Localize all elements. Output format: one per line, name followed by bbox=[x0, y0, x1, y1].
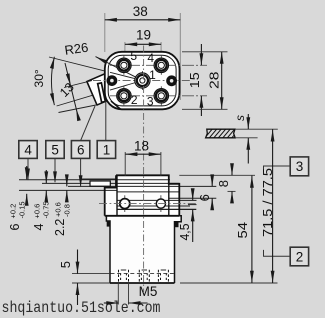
dimension 15 line bbox=[200, 44, 202, 65]
arrow 13 upper bbox=[66, 73, 71, 85]
svg-text:54: 54 bbox=[235, 222, 250, 239]
label 4 +0.6/-0.75 bbox=[32, 201, 51, 230]
svg-text:5: 5 bbox=[130, 49, 137, 63]
svg-text:4: 4 bbox=[32, 224, 46, 231]
leader box 6 up to tab bbox=[81, 106, 95, 141]
wire: extension line left of 38 dim bbox=[104, 13, 106, 52]
svg-text:-0.15: -0.15 bbox=[18, 201, 27, 218]
wire: extension flange top right bbox=[182, 51, 228, 53]
centerline main vertical bbox=[143, 46, 145, 293]
leader box 6 down bbox=[80, 158, 82, 186]
leader box 5 bbox=[54, 158, 56, 182]
svg-text:71.5 / 77.5: 71.5 / 77.5 bbox=[260, 168, 275, 237]
dimension 28 line bbox=[221, 52, 223, 110]
flange outline inner chamfer bbox=[108, 55, 176, 106]
arrow arc bottom bbox=[50, 93, 54, 105]
leader box 4 bbox=[27, 158, 29, 179]
dimension 6 right bbox=[211, 178, 213, 187]
dimension 5 bbox=[77, 250, 79, 274]
R26 leader bbox=[96, 57, 143, 81]
dimension 8 bbox=[231, 164, 233, 175]
centerline row top (15 ref) bbox=[110, 64, 207, 66]
chamfer block left bbox=[107, 221, 111, 227]
hatched plate body bbox=[203, 127, 241, 140]
mounting hole left bbox=[120, 195, 130, 212]
svg-text:15: 15 bbox=[187, 72, 202, 88]
arrow 28 top bbox=[220, 52, 224, 64]
node: 30-deg ray lower bbox=[57, 90, 110, 106]
svg-text:4: 4 bbox=[147, 51, 154, 65]
wire: inner line y191.9 bbox=[117, 191, 179, 193]
arrow 19 right bbox=[149, 42, 161, 46]
arrow s bottom bbox=[246, 138, 250, 150]
wire: stack line y186.4 (callout 6 target, 6-dim right ref) bbox=[68, 185, 216, 187]
label 2.2 +0.6/-0.8 bbox=[53, 202, 72, 236]
centerline horizontal mid bbox=[93, 80, 192, 82]
box 3 bbox=[290, 157, 308, 176]
wire: 18 ext right bbox=[160, 152, 162, 176]
svg-text:2.2: 2.2 bbox=[53, 219, 67, 236]
body outline top plate bbox=[105, 175, 180, 216]
tab (rotatable connector) bbox=[87, 72, 120, 105]
box 4 bbox=[19, 141, 37, 159]
wire: M5 ext right bbox=[128, 283, 130, 305]
M5 hole bottom mid bbox=[139, 270, 149, 283]
leader box 2 bbox=[264, 250, 291, 256]
centerline row bottom (15 ref) bbox=[110, 95, 207, 97]
svg-text:3: 3 bbox=[296, 159, 304, 174]
port 4 bbox=[154, 56, 168, 75]
slot in tab bbox=[98, 83, 106, 102]
side hole right bbox=[166, 75, 177, 86]
body white fill bbox=[105, 175, 182, 283]
svg-text:19: 19 bbox=[136, 28, 151, 43]
wire: M5 ext left bbox=[117, 283, 119, 305]
svg-text:4,5: 4,5 bbox=[177, 224, 192, 241]
wire: ref line y206 across body bbox=[117, 205, 190, 207]
box 1 bbox=[97, 141, 115, 159]
body inner verticals bbox=[116, 175, 118, 216]
wire: plate top line extended right (ref for 77.5) bbox=[235, 128, 278, 130]
node: 30-deg arc bbox=[51, 57, 54, 105]
svg-text:6: 6 bbox=[8, 224, 22, 231]
svg-text:28: 28 bbox=[206, 72, 221, 90]
flange bottom-left chamfer bbox=[111, 101, 121, 109]
svg-text:18: 18 bbox=[134, 139, 149, 154]
dimension 18 bbox=[125, 153, 161, 155]
wire: extension flange bottom right bbox=[182, 108, 228, 110]
wire: stack line y179 bbox=[80, 178, 117, 180]
svg-text:+0.6: +0.6 bbox=[33, 204, 42, 219]
wire: extension line right of 38 dim bbox=[179, 13, 181, 100]
svg-text:1: 1 bbox=[149, 68, 156, 82]
arrow 13 lower bbox=[76, 109, 81, 121]
leader box 1 up bbox=[105, 101, 107, 141]
wire: extension line left of 19 dim bbox=[124, 42, 126, 58]
svg-text:-0.75: -0.75 bbox=[42, 201, 51, 218]
svg-text:2: 2 bbox=[131, 93, 138, 107]
wire: stack line y183.4 (callout 5 target) bbox=[42, 182, 179, 184]
arrow 18 left bbox=[125, 152, 137, 156]
wire: right ref line y198.3 bbox=[169, 197, 217, 199]
svg-text:4: 4 bbox=[24, 142, 32, 157]
wire: tab upper edge extension bbox=[64, 81, 92, 88]
transition left bbox=[106, 216, 110, 283]
wire: body bottom extended right bbox=[180, 282, 278, 284]
svg-text:5: 5 bbox=[58, 261, 73, 268]
svg-text:6: 6 bbox=[77, 142, 85, 157]
wire: extension line right of 19 dim bbox=[160, 42, 162, 58]
mounting hole right bbox=[156, 195, 165, 212]
arrow 18 right bbox=[149, 152, 161, 156]
M5 hole bottom left bbox=[119, 270, 129, 283]
arrow 15 bottom bbox=[200, 96, 204, 108]
chamfer block right bbox=[174, 221, 178, 227]
dimension 71.5 / 77.5 bbox=[272, 129, 274, 283]
port 1 center bbox=[135, 71, 150, 90]
dimension 38 line bbox=[105, 19, 181, 21]
box 2 bbox=[290, 247, 308, 266]
arrow 38 left bbox=[105, 18, 117, 22]
port 3 bbox=[154, 86, 168, 105]
dimension 19 line bbox=[125, 43, 161, 45]
side hole left bbox=[107, 75, 118, 86]
arrow 38 right bbox=[168, 18, 180, 22]
wire: stack line y180.7 (callout 4 target) bbox=[19, 179, 170, 181]
leader box 3 bbox=[264, 166, 291, 172]
dimension 2.2 +0.6/-0.8 line bbox=[66, 175, 68, 186]
wire: 5-dim upper ref line bbox=[72, 273, 110, 275]
wire: 8 dim bottom ref bbox=[228, 190, 236, 192]
svg-text:M5: M5 bbox=[139, 284, 158, 299]
transition right bbox=[175, 216, 182, 283]
port 2 bbox=[117, 86, 131, 105]
dimension s line bbox=[247, 114, 249, 129]
wire: thread depth dashed line across body bbox=[111, 272, 175, 274]
arrow s top bbox=[246, 117, 250, 129]
svg-text:1: 1 bbox=[103, 142, 111, 157]
arrow 28 bottom bbox=[220, 97, 224, 109]
arrow R26 bbox=[96, 57, 108, 64]
wire: line y209.4 (4,5 ref) bbox=[117, 208, 196, 210]
dimension 13 line bbox=[65, 63, 78, 116]
centerline body horizontal bbox=[99, 203, 196, 205]
svg-text:5: 5 bbox=[51, 142, 59, 157]
svg-text:s: s bbox=[233, 115, 247, 121]
arrow 15 top bbox=[200, 53, 204, 65]
svg-text:6: 6 bbox=[197, 194, 212, 201]
dimension M5 line bbox=[104, 302, 119, 304]
box 6 bbox=[71, 141, 89, 159]
body bottom edge bbox=[110, 282, 175, 284]
dimension 4,5 bbox=[192, 192, 194, 201]
wire: plate bottom line extended right (ref for s) bbox=[235, 137, 258, 139]
wire: ref line y200.4 across body bbox=[117, 199, 197, 201]
svg-text:3: 3 bbox=[147, 94, 154, 108]
svg-text:8: 8 bbox=[216, 180, 231, 187]
node: 30-deg ray upper bbox=[49, 57, 110, 72]
svg-text:38: 38 bbox=[133, 4, 148, 19]
port 5 bbox=[117, 56, 131, 75]
svg-text:30°: 30° bbox=[32, 69, 46, 87]
wire: body top extended right bbox=[179, 174, 255, 176]
wire: ray2 inside flange bbox=[110, 81, 142, 91]
label 6 +0.2/-0.15 bbox=[8, 201, 27, 230]
tab seen from front bbox=[90, 181, 110, 186]
svg-text:-0.8: -0.8 bbox=[63, 204, 72, 217]
M5 hole bottom right bbox=[158, 270, 168, 283]
svg-text:+0.2: +0.2 bbox=[9, 204, 18, 219]
wire: tab lower edge extension bbox=[59, 105, 97, 113]
flange outline outer bbox=[105, 52, 180, 110]
box 5 bbox=[46, 141, 64, 159]
wire: right ref line y204.6 bbox=[188, 204, 197, 206]
svg-text:shqiantuo.51sole.com: shqiantuo.51sole.com bbox=[2, 299, 161, 317]
dimension 6 +0.2/-0.15 line bbox=[26, 166, 28, 179]
wire: 5-dim lower ref line (bottom ext left) bbox=[72, 282, 110, 284]
wire: stack line y189.6 bbox=[19, 189, 117, 191]
wire: ray1 inside flange bbox=[110, 72, 142, 80]
arrow arc top bbox=[50, 57, 54, 69]
dimension 54 bbox=[251, 176, 253, 283]
svg-text:+0.6: +0.6 bbox=[54, 202, 63, 217]
wire: 18 ext left bbox=[124, 152, 126, 176]
svg-text:2: 2 bbox=[296, 249, 304, 264]
arrow 19 left bbox=[125, 42, 137, 46]
dimension 4 +0.6/-0.75 line bbox=[45, 170, 47, 183]
